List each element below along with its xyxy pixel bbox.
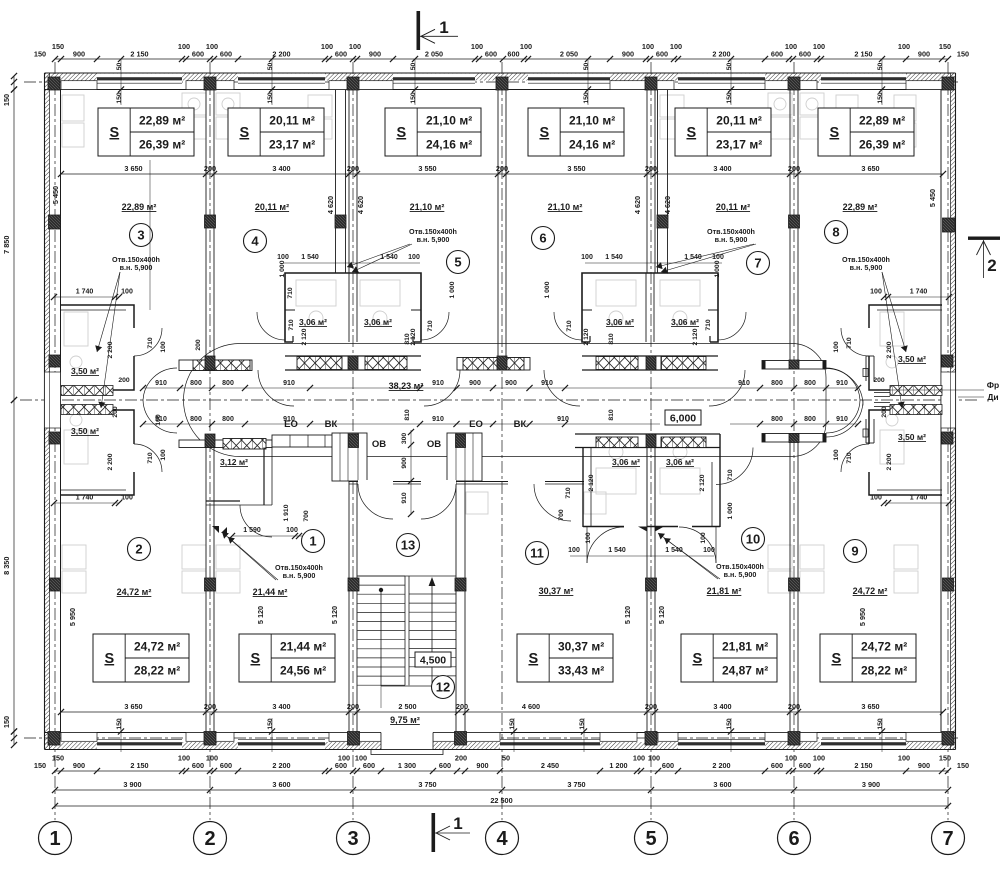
svg-text:ВК: ВК — [514, 419, 527, 430]
svg-text:S: S — [692, 651, 702, 667]
svg-text:2 120: 2 120 — [301, 328, 308, 345]
svg-text:600: 600 — [335, 50, 347, 59]
level 6.000 box — [665, 410, 701, 425]
svg-text:600: 600 — [192, 50, 204, 59]
area table 30,37/33,43 — [517, 634, 613, 682]
svg-text:100: 100 — [321, 42, 333, 51]
svg-text:600: 600 — [771, 50, 783, 59]
svg-text:7 850: 7 850 — [2, 236, 11, 254]
svg-text:3 650: 3 650 — [861, 164, 879, 173]
wall axis6 lower — [789, 442, 791, 733]
svg-text:150: 150 — [34, 50, 46, 59]
room 11 door — [534, 484, 571, 521]
svg-text:9: 9 — [851, 544, 858, 559]
wall axis2 lower — [205, 447, 207, 733]
svg-text:5: 5 — [454, 255, 461, 270]
svg-text:600: 600 — [220, 50, 232, 59]
svg-text:1 540: 1 540 — [608, 547, 626, 554]
svg-text:100: 100 — [520, 42, 532, 51]
svg-text:710: 710 — [727, 469, 734, 481]
svg-text:3,50 м²: 3,50 м² — [71, 366, 99, 376]
svg-text:22,89 м²: 22,89 м² — [859, 114, 905, 128]
left vertical dims — [13, 76, 15, 90]
svg-text:3,06 м²: 3,06 м² — [364, 317, 392, 327]
stair wall right — [455, 434, 457, 733]
svg-text:20,11 м²: 20,11 м² — [269, 114, 315, 128]
svg-text:5 120: 5 120 — [330, 606, 339, 624]
svg-text:910: 910 — [738, 380, 750, 387]
svg-text:200: 200 — [347, 702, 359, 711]
svg-text:600: 600 — [799, 761, 811, 770]
svg-text:24,72 м²: 24,72 м² — [134, 640, 180, 654]
svg-text:4 620: 4 620 — [326, 196, 335, 214]
svg-text:в.н. 5,900: в.н. 5,900 — [715, 235, 748, 244]
svg-text:150: 150 — [579, 718, 586, 730]
room 5 door — [424, 370, 460, 406]
room 11 north wall — [349, 481, 584, 483]
svg-text:100: 100 — [277, 254, 289, 261]
svg-text:100: 100 — [121, 495, 133, 502]
svg-text:5: 5 — [645, 828, 656, 850]
svg-text:100: 100 — [785, 754, 797, 763]
level 4.500 box — [415, 652, 451, 667]
svg-text:100: 100 — [471, 42, 483, 51]
svg-text:2 150: 2 150 — [130, 761, 148, 770]
svg-text:3,06 м²: 3,06 м² — [606, 317, 634, 327]
area table 22,89/26,39 — [818, 108, 914, 156]
room width dims top (3650 etc) — [61, 173, 943, 175]
wall axis5 lower — [646, 447, 648, 733]
svg-text:5 450: 5 450 — [928, 189, 937, 207]
svg-text:710: 710 — [287, 287, 294, 299]
svg-text:150: 150 — [877, 92, 884, 104]
bathroom cluster walls — [285, 273, 421, 342]
svg-text:24,16 м²: 24,16 м² — [569, 138, 615, 152]
svg-text:150: 150 — [52, 42, 64, 51]
svg-text:2 200: 2 200 — [107, 341, 114, 358]
svg-text:150: 150 — [116, 92, 123, 104]
right lobby wall — [865, 356, 867, 381]
svg-text:100: 100 — [568, 547, 580, 554]
svg-text:в.н. 5,900: в.н. 5,900 — [283, 571, 316, 580]
bottom dimension chain row1 — [55, 770, 948, 772]
svg-text:3 650: 3 650 — [861, 702, 879, 711]
svg-text:100: 100 — [670, 42, 682, 51]
svg-text:7: 7 — [942, 828, 953, 850]
svg-text:6: 6 — [539, 231, 546, 246]
svg-text:5 120: 5 120 — [623, 606, 632, 624]
svg-text:3 600: 3 600 — [272, 780, 290, 789]
svg-text:22,89 м²: 22,89 м² — [122, 202, 157, 212]
room 6 door — [544, 370, 580, 406]
svg-text:900: 900 — [73, 761, 85, 770]
svg-text:100: 100 — [785, 42, 797, 51]
svg-text:100: 100 — [178, 754, 190, 763]
svg-text:200: 200 — [788, 702, 800, 711]
svg-text:2 450: 2 450 — [541, 761, 559, 770]
svg-text:100: 100 — [286, 527, 298, 534]
svg-text:100: 100 — [160, 449, 167, 461]
svg-text:в.н. 5,900: в.н. 5,900 — [850, 263, 883, 272]
svg-text:3 400: 3 400 — [713, 164, 731, 173]
area table 21,81/24,87 — [681, 634, 777, 682]
svg-text:910: 910 — [432, 380, 444, 387]
outer wall top — [45, 73, 956, 81]
svg-text:200: 200 — [873, 377, 885, 384]
stair stringer — [404, 576, 406, 685]
hall door arcs at corridor cap — [143, 368, 177, 400]
svg-text:800: 800 — [190, 380, 202, 387]
svg-text:3 750: 3 750 — [418, 780, 436, 789]
svg-text:100: 100 — [160, 341, 167, 353]
svg-text:S: S — [109, 125, 119, 141]
svg-text:2 150: 2 150 — [854, 50, 872, 59]
duct bank left of stairs — [272, 435, 340, 447]
area table 24,72/28,22 — [820, 634, 916, 682]
stair wall left — [348, 434, 350, 733]
room 3.12 door — [240, 505, 272, 537]
svg-text:3 900: 3 900 — [862, 780, 880, 789]
door lintel wedges room 1 — [212, 526, 219, 533]
area table 21,10/24,16 — [385, 108, 481, 156]
svg-text:2 050: 2 050 — [425, 50, 443, 59]
svg-text:100: 100 — [833, 449, 840, 461]
svg-text:150: 150 — [726, 718, 733, 730]
svg-text:1: 1 — [453, 814, 462, 833]
svg-text:S: S — [528, 651, 538, 667]
svg-text:150: 150 — [957, 761, 969, 770]
svg-text:810: 810 — [608, 409, 615, 421]
svg-text:200: 200 — [204, 702, 216, 711]
svg-text:5 120: 5 120 — [657, 606, 666, 624]
svg-text:2 120: 2 120 — [692, 328, 699, 345]
section mark 2 right — [968, 237, 1000, 240]
svg-text:900: 900 — [469, 380, 481, 387]
svg-text:200: 200 — [347, 164, 359, 173]
svg-text:в.н. 5,900: в.н. 5,900 — [417, 235, 450, 244]
svg-text:24,16 м²: 24,16 м² — [426, 138, 472, 152]
svg-text:600: 600 — [662, 761, 674, 770]
grid axis lines — [54, 62, 56, 820]
svg-text:710: 710 — [427, 320, 434, 332]
niches top wall — [61, 81, 97, 90]
right wall corridor opening — [941, 372, 956, 428]
wall axis3 upper — [348, 90, 350, 274]
corridor vestibule axis6 bottom wall — [762, 434, 826, 443]
svg-text:900: 900 — [401, 457, 408, 469]
svg-text:2: 2 — [135, 542, 142, 557]
svg-text:100: 100 — [898, 42, 910, 51]
svg-text:1 740: 1 740 — [910, 289, 928, 296]
svg-text:3,50 м²: 3,50 м² — [71, 426, 99, 436]
svg-text:12: 12 — [436, 680, 450, 695]
windows bottom wall — [97, 740, 182, 750]
bottom dimension chain row3 total — [55, 805, 948, 807]
svg-text:5 950: 5 950 — [68, 608, 77, 626]
svg-text:7: 7 — [754, 256, 761, 271]
svg-text:50: 50 — [726, 63, 733, 71]
svg-text:26,39 м²: 26,39 м² — [139, 138, 185, 152]
svg-text:3,06 м²: 3,06 м² — [612, 457, 640, 467]
svg-text:3 750: 3 750 — [567, 780, 585, 789]
svg-text:S: S — [239, 125, 249, 141]
svg-text:200: 200 — [204, 164, 216, 173]
svg-text:3 400: 3 400 — [713, 702, 731, 711]
1740 dims left/right bathrooms — [54, 296, 119, 298]
svg-text:3 400: 3 400 — [272, 702, 290, 711]
bathroom doors — [554, 312, 582, 340]
svg-text:13: 13 — [401, 538, 415, 553]
grid bubbles 1-7 — [39, 822, 72, 855]
svg-text:910: 910 — [432, 416, 444, 423]
svg-text:20,11 м²: 20,11 м² — [716, 114, 762, 128]
svg-text:150: 150 — [116, 718, 123, 730]
area table 22,89/26,39 — [98, 108, 194, 156]
svg-text:1 540: 1 540 — [605, 254, 623, 261]
svg-text:200: 200 — [195, 339, 202, 351]
svg-text:2 200: 2 200 — [712, 761, 730, 770]
svg-text:3: 3 — [347, 828, 358, 850]
svg-text:900: 900 — [476, 761, 488, 770]
svg-text:S: S — [250, 651, 260, 667]
columns — [48, 77, 60, 90]
svg-text:30,37 м²: 30,37 м² — [558, 640, 604, 654]
outer wall left — [45, 73, 50, 750]
svg-text:8: 8 — [832, 225, 839, 240]
svg-text:150: 150 — [509, 718, 516, 730]
svg-text:100: 100 — [813, 754, 825, 763]
svg-text:910: 910 — [155, 380, 167, 387]
svg-text:910: 910 — [557, 416, 569, 423]
svg-text:24,72 м²: 24,72 м² — [861, 640, 907, 654]
corridor top wall with lintels — [179, 360, 252, 371]
svg-text:1 000: 1 000 — [727, 502, 734, 519]
section mark 1 bottom — [432, 813, 436, 852]
corridor vestibule axis6 top wall — [762, 361, 826, 370]
room 3.12 walls — [263, 448, 265, 506]
svg-text:3,50 м²: 3,50 м² — [898, 432, 926, 442]
svg-text:2 120: 2 120 — [410, 328, 417, 345]
svg-text:700: 700 — [303, 510, 310, 522]
svg-text:600: 600 — [799, 50, 811, 59]
svg-text:710: 710 — [705, 319, 712, 331]
shaft wall left of axis3 — [335, 90, 337, 274]
right lobby doors — [826, 369, 863, 406]
side bathroom lower 3.50 — [869, 472, 942, 495]
svg-text:900: 900 — [622, 50, 634, 59]
duct block stair left — [332, 433, 367, 481]
svg-text:S: S — [539, 125, 549, 141]
svg-text:10: 10 — [746, 532, 760, 547]
side bathroom lower 3.50 — [61, 472, 134, 495]
furniture hints (light gray) — [182, 93, 206, 115]
svg-text:50: 50 — [267, 63, 274, 71]
svg-text:100: 100 — [585, 532, 592, 544]
svg-text:21,10 м²: 21,10 м² — [548, 202, 583, 212]
svg-text:900: 900 — [369, 50, 381, 59]
svg-text:710: 710 — [846, 337, 853, 349]
svg-text:800: 800 — [804, 416, 816, 423]
svg-text:33,43 м²: 33,43 м² — [558, 664, 604, 678]
svg-text:3,50 м²: 3,50 м² — [898, 354, 926, 364]
svg-text:150: 150 — [267, 718, 274, 730]
svg-text:1 540: 1 540 — [301, 254, 319, 261]
svg-text:600: 600 — [771, 761, 783, 770]
svg-text:S: S — [396, 125, 406, 141]
svg-text:4: 4 — [496, 828, 508, 850]
wall axis4 upper — [497, 90, 499, 357]
entrance opening bottom — [381, 732, 433, 750]
svg-text:100: 100 — [648, 754, 660, 763]
svg-text:3: 3 — [137, 228, 144, 243]
svg-text:3 550: 3 550 — [418, 164, 436, 173]
corridor top wall under right cluster — [582, 355, 718, 357]
svg-text:600: 600 — [656, 50, 668, 59]
svg-text:600: 600 — [485, 50, 497, 59]
svg-text:100: 100 — [155, 414, 162, 426]
svg-text:1 540: 1 540 — [380, 254, 398, 261]
svg-text:2 200: 2 200 — [107, 453, 114, 470]
svg-text:S: S — [686, 125, 696, 141]
svg-text:150: 150 — [939, 754, 951, 763]
svg-text:24,72 м²: 24,72 м² — [853, 586, 888, 596]
svg-text:710: 710 — [846, 452, 853, 464]
svg-text:9,75 м²: 9,75 м² — [390, 715, 420, 725]
svg-text:50: 50 — [116, 63, 123, 71]
svg-text:50: 50 — [502, 754, 510, 763]
svg-text:4 620: 4 620 — [356, 196, 365, 214]
svg-text:100: 100 — [408, 254, 420, 261]
svg-text:Фр: Фр — [987, 380, 999, 390]
vertical mini chain at stairs — [410, 430, 412, 515]
svg-text:600: 600 — [439, 761, 451, 770]
area table 20,11/23,17 — [675, 108, 771, 156]
svg-text:150: 150 — [410, 92, 417, 104]
svg-text:100: 100 — [898, 754, 910, 763]
svg-text:1: 1 — [49, 828, 60, 850]
svg-text:30,37 м²: 30,37 м² — [539, 586, 574, 596]
inner vertical dims 5450/5950 — [61, 90, 63, 310]
svg-text:2: 2 — [987, 256, 996, 275]
svg-text:800: 800 — [804, 380, 816, 387]
corridor dim chain upper — [143, 387, 858, 389]
room 7 door — [709, 370, 745, 406]
svg-text:100: 100 — [633, 754, 645, 763]
svg-text:1 740: 1 740 — [910, 495, 928, 502]
svg-text:100: 100 — [349, 42, 361, 51]
stair landing doors — [358, 484, 393, 519]
svg-text:2 120: 2 120 — [588, 474, 595, 491]
svg-text:22,89 м²: 22,89 м² — [139, 114, 185, 128]
svg-text:1 540: 1 540 — [684, 254, 702, 261]
svg-text:3,12 м²: 3,12 м² — [220, 457, 248, 467]
windows top wall — [97, 74, 182, 84]
svg-text:100: 100 — [355, 754, 367, 763]
svg-text:4: 4 — [251, 234, 259, 249]
svg-text:2 200: 2 200 — [886, 453, 893, 470]
svg-text:150: 150 — [34, 761, 46, 770]
passage from lobby to right wall vents — [874, 392, 890, 394]
svg-text:200: 200 — [788, 164, 800, 173]
svg-text:900: 900 — [505, 380, 517, 387]
svg-text:200: 200 — [456, 702, 468, 711]
svg-text:4 620: 4 620 — [633, 196, 642, 214]
svg-text:100: 100 — [712, 254, 724, 261]
svg-text:1 590: 1 590 — [243, 527, 261, 534]
bathroom doors — [257, 312, 285, 340]
svg-text:150: 150 — [939, 42, 951, 51]
svg-text:2 120: 2 120 — [699, 474, 706, 491]
svg-text:200: 200 — [881, 406, 888, 418]
svg-text:3 600: 3 600 — [713, 780, 731, 789]
svg-text:в.н. 5,900: в.н. 5,900 — [120, 263, 153, 272]
area table 21,10/24,16 — [528, 108, 624, 156]
svg-text:1 200: 1 200 — [609, 761, 627, 770]
svg-text:5 120: 5 120 — [256, 606, 265, 624]
svg-text:2 200: 2 200 — [272, 761, 290, 770]
svg-text:910: 910 — [283, 416, 295, 423]
svg-text:3 650: 3 650 — [124, 164, 142, 173]
entrance porch — [371, 750, 443, 755]
svg-text:в.н. 5,900: в.н. 5,900 — [724, 570, 757, 579]
svg-text:50: 50 — [877, 63, 884, 71]
svg-text:1 540: 1 540 — [665, 547, 683, 554]
svg-text:ОВ: ОВ — [372, 439, 386, 450]
svg-text:1 910: 1 910 — [283, 504, 290, 521]
section mark 1 top — [417, 11, 421, 50]
svg-text:710: 710 — [147, 452, 154, 464]
svg-text:6,000: 6,000 — [670, 413, 696, 425]
svg-text:2 150: 2 150 — [130, 50, 148, 59]
svg-text:910: 910 — [836, 380, 848, 387]
svg-text:5 450: 5 450 — [51, 186, 60, 204]
svg-text:700: 700 — [558, 509, 565, 521]
svg-text:150: 150 — [957, 50, 969, 59]
svg-text:24,87 м²: 24,87 м² — [722, 664, 768, 678]
wall axis6 upper — [789, 90, 791, 361]
svg-text:710: 710 — [288, 319, 295, 331]
corridor top wall axis4 stub — [457, 358, 530, 371]
svg-text:100: 100 — [703, 547, 715, 554]
corridor bottom wall under bottom cluster — [575, 433, 720, 435]
svg-text:200: 200 — [455, 754, 467, 763]
svg-text:900: 900 — [918, 761, 930, 770]
svg-text:1 300: 1 300 — [398, 761, 416, 770]
svg-text:2 200: 2 200 — [886, 341, 893, 358]
svg-text:28,22 м²: 28,22 м² — [861, 664, 907, 678]
svg-text:1: 1 — [309, 534, 316, 549]
corridor boundary outline — [184, 344, 827, 457]
svg-text:4,500: 4,500 — [420, 655, 446, 667]
svg-text:26,39 м²: 26,39 м² — [859, 138, 905, 152]
svg-text:100: 100 — [833, 341, 840, 353]
svg-text:3 400: 3 400 — [272, 164, 290, 173]
svg-text:3,06 м²: 3,06 м² — [666, 457, 694, 467]
svg-text:900: 900 — [73, 50, 85, 59]
svg-text:600: 600 — [507, 50, 519, 59]
stair walk line with arrow — [379, 588, 383, 592]
svg-text:200: 200 — [118, 377, 130, 384]
svg-text:100: 100 — [581, 254, 593, 261]
side bathroom upper 3.50 — [61, 305, 134, 328]
svg-text:S: S — [104, 651, 114, 667]
svg-text:3 650: 3 650 — [124, 702, 142, 711]
svg-text:3 900: 3 900 — [123, 780, 141, 789]
niches bottom wall — [61, 733, 97, 742]
bottom dimension chain row2 (axis spans) — [55, 789, 948, 791]
svg-text:23,17 м²: 23,17 м² — [269, 138, 315, 152]
svg-text:200: 200 — [112, 406, 119, 418]
